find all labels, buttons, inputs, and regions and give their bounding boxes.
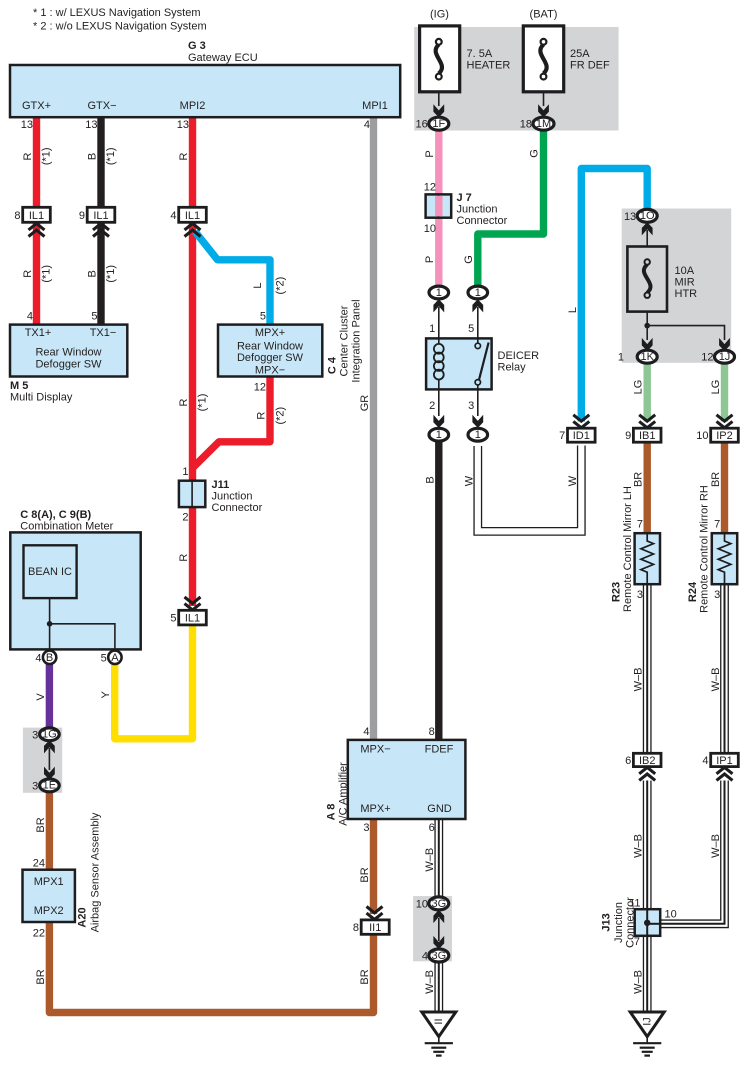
relay output oval 1 (right) xyxy=(468,428,488,441)
svg-text:1: 1 xyxy=(436,429,442,441)
label W-B J13 to ground xyxy=(633,970,645,994)
oval 1E xyxy=(32,779,59,792)
label W-B on GND wire xyxy=(424,848,436,872)
svg-text:1: 1 xyxy=(475,429,481,441)
svg-text:MPX2: MPX2 xyxy=(34,905,64,917)
svg-text:MIR: MIR xyxy=(675,277,695,289)
chevron up below IL1 pin9 xyxy=(93,224,109,237)
svg-text:Multi Display: Multi Display xyxy=(10,392,73,404)
svg-text:5: 5 xyxy=(101,652,107,664)
chevron up below IL1 pin4 xyxy=(185,224,201,237)
junction connector J7 xyxy=(426,194,452,217)
svg-text:2: 2 xyxy=(182,511,188,523)
svg-text:Airbag Sensor Assembly: Airbag Sensor Assembly xyxy=(90,812,102,932)
svg-text:IL1: IL1 xyxy=(185,210,200,222)
svg-text:W–B: W–B xyxy=(633,834,645,858)
label BR on A20 lower wire xyxy=(35,969,47,984)
svg-text:GTX+: GTX+ xyxy=(22,100,51,112)
svg-text:Defogger SW: Defogger SW xyxy=(35,359,102,371)
svg-text:12: 12 xyxy=(254,382,266,394)
label BR below II1 xyxy=(359,969,371,984)
label W-B IB2 to J13 xyxy=(633,834,645,858)
arrow and lead into relay pin5 xyxy=(472,299,483,338)
svg-text:B: B xyxy=(46,652,53,664)
svg-text:W–B: W–B xyxy=(633,668,645,692)
svg-text:12: 12 xyxy=(424,182,436,194)
wire W-B (IB2 to J13 pin11) xyxy=(643,781,652,910)
wire W-B (R24 pin3 to IP1) xyxy=(720,584,729,754)
svg-text:IJ: IJ xyxy=(641,1017,653,1026)
svg-text:MPX−: MPX− xyxy=(255,365,285,377)
M5 pin numbers 4/5 xyxy=(27,311,98,323)
svg-text:MPX−: MPX− xyxy=(360,744,390,756)
wire L branch (IL1 to C4 MPX+ pin5) xyxy=(195,232,270,326)
label W-B IP1 to J13 xyxy=(710,834,722,858)
multi display M5 label xyxy=(10,380,73,404)
label (BAT) xyxy=(530,9,558,21)
DEICER relay label xyxy=(498,350,540,374)
svg-text:(*2): (*2) xyxy=(275,277,287,295)
svg-text:IP1: IP1 xyxy=(716,755,733,767)
R24 pin numbers 7/3 xyxy=(714,519,720,602)
connector IB2 pin6 xyxy=(625,753,661,767)
svg-text:LG: LG xyxy=(710,380,722,395)
combination meter box xyxy=(10,532,140,649)
svg-text:V: V xyxy=(35,693,47,701)
svg-text:Integration Panel: Integration Panel xyxy=(351,299,363,382)
svg-text:J11: J11 xyxy=(212,479,230,491)
wire W-B (A8 GND pin6 to 3G) xyxy=(434,819,443,898)
lead and arrow from relay pin2 xyxy=(433,389,444,428)
connector IP1 pin4 xyxy=(702,753,738,767)
svg-text:3: 3 xyxy=(468,400,474,412)
wire B GTX- (G3 pin13 to M5 TX1-) xyxy=(97,116,104,325)
relay input oval 1 (left) xyxy=(429,286,449,299)
svg-text:IB2: IB2 xyxy=(639,755,656,767)
svg-text:B: B xyxy=(424,476,436,483)
wire W-B (IP1 to J13 pin10) xyxy=(660,781,725,924)
leads from fuse to 1K and 1J with junction node xyxy=(644,312,724,340)
wire LG (1K to IB1) xyxy=(644,362,651,422)
svg-text:LG: LG xyxy=(633,380,645,395)
fuse 7.5A HEATER xyxy=(420,26,460,92)
svg-text:* 2 : w/o LEXUS Navigation Sys: * 2 : w/o LEXUS Navigation System xyxy=(33,21,207,33)
A/C amplifier A8 label (rotated) xyxy=(326,762,350,826)
svg-text:Rear Window: Rear Window xyxy=(35,347,101,359)
label R (*1) on GTX+ wire lower xyxy=(22,265,53,283)
svg-text:(*1): (*1) xyxy=(41,265,53,283)
wire BR (A20 MPX2 pin22 to II1 junction, bottom run) xyxy=(49,922,373,1013)
svg-text:A/C Amplifier: A/C Amplifier xyxy=(338,762,350,826)
svg-text:1E: 1E xyxy=(43,780,56,792)
svg-text:Combination Meter: Combination Meter xyxy=(20,521,113,533)
svg-text:Y: Y xyxy=(100,690,112,698)
wire R MPI2 (G3 pin13 to J11 pin1) xyxy=(189,116,196,482)
gateway ECU G3 box xyxy=(10,65,400,117)
mirror R23 label (rotated) xyxy=(611,486,635,612)
label R (*1) on GTX+ wire upper xyxy=(22,147,53,165)
oval 1J pin12 xyxy=(701,350,734,364)
svg-text:MPX+: MPX+ xyxy=(255,327,285,339)
C4 pin numbers 5/12 xyxy=(254,311,266,394)
R23 pin numbers 7/3 xyxy=(637,519,643,602)
fuse value label 10A MIR HTR xyxy=(675,265,698,300)
svg-text:MPI1: MPI1 xyxy=(362,100,388,112)
arrow and lead from 1O into MIR HTR fuse xyxy=(642,222,653,246)
svg-text:A20: A20 xyxy=(77,907,89,927)
svg-text:* 1 : w/ LEXUS Navigation Syst: * 1 : w/ LEXUS Navigation System xyxy=(33,7,201,19)
wire R GTX+ (G3 pin13 to M5 TX1+) xyxy=(33,116,40,325)
oval 1K pin1 xyxy=(618,350,657,364)
label (IG) xyxy=(430,9,449,21)
svg-text:8: 8 xyxy=(14,210,20,222)
svg-text:25A: 25A xyxy=(570,48,590,60)
connector IB1 pin9 xyxy=(625,428,661,442)
svg-text:1M: 1M xyxy=(536,118,551,130)
svg-text:(*1): (*1) xyxy=(105,147,117,165)
A20 pin numbers 24/22 xyxy=(33,858,45,940)
wire V (combination meter pin4 B to 1G) xyxy=(46,663,53,729)
svg-text:8: 8 xyxy=(429,726,435,738)
svg-text:HTR: HTR xyxy=(675,288,698,300)
oval 3G pin4 xyxy=(422,949,449,963)
junction connector J13 xyxy=(635,909,661,936)
J11 label xyxy=(212,479,263,514)
svg-text:BR: BR xyxy=(35,969,47,984)
junction connector J11 xyxy=(179,481,205,507)
meter pin numbers 4/5 xyxy=(35,652,106,664)
fuse value label 7.5A HEATER xyxy=(467,48,511,72)
arrow into 1J xyxy=(719,338,730,351)
svg-text:Remote Control Mirror LH: Remote Control Mirror LH xyxy=(622,486,634,612)
svg-text:Junction: Junction xyxy=(212,491,253,503)
svg-text:BR: BR xyxy=(633,472,645,487)
oval 3G pin10 xyxy=(416,897,449,911)
svg-text:B: B xyxy=(87,153,99,160)
svg-text:(*1): (*1) xyxy=(41,147,53,165)
wire P (1F to J7 to relay pin1) xyxy=(435,130,442,288)
svg-text:1J: 1J xyxy=(719,351,731,363)
label BR on 1E-A20 wire xyxy=(35,817,47,832)
label R (*2) on MPX- branch xyxy=(256,407,287,425)
svg-text:HEATER: HEATER xyxy=(467,60,511,72)
pin B circle xyxy=(43,651,56,664)
connector IL1 pin5 xyxy=(170,610,206,625)
double arrow between 3G ovals xyxy=(433,910,444,949)
label L (*2) on blue branch xyxy=(252,277,287,295)
mirror R23 box with resistor xyxy=(635,533,660,584)
svg-text:4: 4 xyxy=(363,726,369,738)
svg-text:C 4: C 4 xyxy=(327,356,339,374)
label W-B to IP1 xyxy=(710,668,722,692)
svg-text:P: P xyxy=(424,256,436,263)
svg-text:R: R xyxy=(22,270,34,278)
svg-text:G: G xyxy=(529,149,541,158)
oval 1G xyxy=(32,728,59,741)
svg-text:4: 4 xyxy=(364,119,370,131)
chevron up below IP1 xyxy=(717,767,733,780)
svg-text:MPX1: MPX1 xyxy=(34,876,64,888)
svg-text:6: 6 xyxy=(429,822,435,834)
wire BR (1E to A20 MPX1 pin24) xyxy=(46,791,53,870)
svg-text:R: R xyxy=(178,152,190,160)
svg-text:R23: R23 xyxy=(611,582,623,602)
svg-text:B: B xyxy=(87,270,99,277)
svg-text:M 5: M 5 xyxy=(10,380,28,392)
svg-text:16: 16 xyxy=(416,119,428,131)
lead and arrow from relay pin3 xyxy=(472,389,483,428)
label W-B below 3G xyxy=(424,970,436,994)
svg-text:MPX+: MPX+ xyxy=(360,803,390,815)
svg-text:4: 4 xyxy=(422,951,428,963)
svg-text:Junction: Junction xyxy=(613,902,625,943)
label LG right xyxy=(710,380,722,395)
svg-text:5: 5 xyxy=(91,311,97,323)
svg-text:L: L xyxy=(567,307,579,313)
svg-text:G: G xyxy=(463,255,475,264)
label BR to R23 xyxy=(633,472,645,487)
svg-text:J 7: J 7 xyxy=(457,192,472,204)
gray background: 3G connector block xyxy=(413,896,452,961)
relay pin numbers 1/5 xyxy=(429,323,474,335)
connector IP2 pin10 xyxy=(696,428,738,442)
svg-text:7: 7 xyxy=(637,519,643,531)
arrow into 1K xyxy=(642,338,653,351)
svg-text:P: P xyxy=(424,150,436,157)
J7 pin numbers 12/10 xyxy=(424,182,436,235)
label B (*1) on GTX- wire lower xyxy=(87,265,118,283)
svg-text:(*1): (*1) xyxy=(105,265,117,283)
lead and arrow from HEATER fuse to 1F xyxy=(433,92,444,118)
svg-text:5: 5 xyxy=(170,613,176,625)
svg-text:R: R xyxy=(256,412,268,420)
label W-B to IB2 xyxy=(633,668,645,692)
svg-text:9: 9 xyxy=(79,210,85,222)
wire L (ID1 up and over to 1O) xyxy=(581,169,647,422)
svg-text:ID1: ID1 xyxy=(573,430,590,442)
label GR on MPI1 wire xyxy=(359,395,371,412)
center cluster C4 box xyxy=(218,325,322,377)
svg-text:3: 3 xyxy=(363,822,369,834)
ground II xyxy=(422,1012,456,1056)
label W right xyxy=(567,475,579,486)
svg-text:(*2): (*2) xyxy=(274,407,286,425)
svg-text:8: 8 xyxy=(353,922,359,934)
label V on violet wire xyxy=(35,693,47,701)
svg-text:II1: II1 xyxy=(369,922,381,934)
svg-text:FDEF: FDEF xyxy=(425,744,454,756)
relay output oval 1 (left) xyxy=(429,428,449,441)
svg-text:FR DEF: FR DEF xyxy=(570,60,610,72)
relay pin numbers 2/3 xyxy=(429,400,474,412)
wire Y (IL1 to combination meter pin5 A) xyxy=(115,623,193,739)
svg-text:4: 4 xyxy=(702,755,708,767)
label B (*1) on GTX- wire upper xyxy=(87,147,118,165)
svg-text:J13: J13 xyxy=(601,913,613,931)
svg-text:1G: 1G xyxy=(42,729,57,741)
label R on MPI2 wire xyxy=(178,152,190,160)
oval 1M pin18 xyxy=(520,117,554,131)
svg-text:BEAN IC: BEAN IC xyxy=(28,566,72,578)
mirror R24 label (rotated) xyxy=(687,485,711,613)
svg-text:R: R xyxy=(178,554,190,562)
gray background: 1G/1E connector block xyxy=(23,728,62,793)
svg-text:13: 13 xyxy=(177,119,189,131)
label P upper xyxy=(424,150,436,157)
wire R branch (C4 MPX- pin12 to J11 junction) xyxy=(193,376,270,468)
fuse value label 25A FR DEF xyxy=(570,48,610,72)
multi display M5 box xyxy=(10,325,127,377)
svg-text:Defogger SW: Defogger SW xyxy=(237,352,304,364)
svg-text:1: 1 xyxy=(475,287,481,299)
svg-text:18: 18 xyxy=(520,119,532,131)
label P lower xyxy=(424,256,436,263)
svg-text:Rear Window: Rear Window xyxy=(237,341,303,353)
wire W (relay pin3 to ID1, U-run) xyxy=(478,446,582,532)
gateway ECU G3 label xyxy=(188,40,258,64)
label BR to R24 xyxy=(710,472,722,487)
svg-text:Remote Control Mirror RH: Remote Control Mirror RH xyxy=(699,485,711,613)
label G lower xyxy=(463,255,475,264)
lead and arrow from FR DEF fuse to 1M xyxy=(538,92,549,118)
connector IL1 pin9 xyxy=(79,207,115,222)
svg-text:C 8(A), C 9(B): C 8(A), C 9(B) xyxy=(20,509,91,521)
svg-text:22: 22 xyxy=(33,927,45,939)
svg-text:IB1: IB1 xyxy=(639,430,656,442)
svg-text:(BAT): (BAT) xyxy=(530,9,558,21)
svg-text:BR: BR xyxy=(359,867,371,882)
svg-text:IL1: IL1 xyxy=(185,613,200,625)
pin A circle xyxy=(108,651,121,664)
label R (*1) on main red wire xyxy=(178,394,208,412)
label W left xyxy=(463,475,475,486)
combination meter label xyxy=(20,509,113,533)
gray background: mirror heater fuse block xyxy=(622,209,732,363)
svg-text:GR: GR xyxy=(359,395,371,412)
svg-text:IL1: IL1 xyxy=(93,210,108,222)
label G upper xyxy=(529,149,541,158)
wire R (J11 pin2 to IL1 pin5) xyxy=(189,507,196,607)
svg-text:24: 24 xyxy=(33,858,45,870)
svg-text:13: 13 xyxy=(624,211,636,223)
G3 pin numbers 13/13/13/4 xyxy=(21,119,370,131)
chevron down above IP2 xyxy=(717,415,733,428)
svg-text:W: W xyxy=(463,475,475,486)
J7 label xyxy=(457,192,508,227)
svg-text:TX1−: TX1− xyxy=(90,327,117,339)
arrow and lead into relay pin1 xyxy=(433,299,444,338)
svg-text:13: 13 xyxy=(85,119,97,131)
label Y on yellow wire xyxy=(100,690,112,698)
svg-text:5: 5 xyxy=(260,311,266,323)
svg-text:IP2: IP2 xyxy=(716,430,733,442)
svg-text:II: II xyxy=(433,1018,445,1024)
svg-text:4: 4 xyxy=(27,311,33,323)
svg-text:7. 5A: 7. 5A xyxy=(467,48,493,60)
wire W-B (R23 pin3 to IB2) xyxy=(643,584,652,754)
chevron down above IB1 xyxy=(639,415,655,428)
svg-text:12: 12 xyxy=(701,352,713,364)
svg-text:10: 10 xyxy=(424,223,436,235)
svg-text:BR: BR xyxy=(359,969,371,984)
svg-text:3: 3 xyxy=(637,589,643,601)
label B on relay-FDEF wire xyxy=(424,476,436,483)
fuse 10A MIR HTR xyxy=(627,247,667,312)
svg-text:BR: BR xyxy=(710,472,722,487)
chevron up below IB2 xyxy=(639,767,655,780)
svg-text:1: 1 xyxy=(618,352,624,364)
svg-text:(*1): (*1) xyxy=(196,394,208,412)
svg-text:Gateway ECU: Gateway ECU xyxy=(188,52,258,64)
svg-text:L: L xyxy=(252,283,264,289)
oval 1F pin16 xyxy=(416,117,449,131)
svg-text:BR: BR xyxy=(35,817,47,832)
wire BR (IP2 to R24 pin7) xyxy=(721,442,728,535)
label L on blue drop wire xyxy=(567,307,579,313)
svg-text:4: 4 xyxy=(170,210,176,222)
note *1 xyxy=(33,7,201,19)
svg-text:W–B: W–B xyxy=(424,848,436,872)
wire BR (A8 MPX+ pin3 to II1) xyxy=(370,819,377,915)
ground IJ xyxy=(630,1012,664,1056)
chevron up below IL1 pin8 xyxy=(29,224,45,237)
label LG left xyxy=(633,380,645,395)
J13 pin numbers 11/10/7 xyxy=(629,898,677,949)
svg-text:W–B: W–B xyxy=(710,834,722,858)
svg-text:W–B: W–B xyxy=(424,970,436,994)
svg-text:Center Cluster: Center Cluster xyxy=(339,305,351,376)
label BR on A8 MPX+ wire xyxy=(359,867,371,882)
chevron down above II1 xyxy=(367,907,383,920)
wire GR MPI1 (G3 pin4 to A8 MPX- pin4) xyxy=(370,116,377,741)
wire W-B (3G to ground II) xyxy=(434,962,443,1013)
svg-text:10: 10 xyxy=(416,898,428,910)
svg-text:Junction: Junction xyxy=(457,204,498,216)
note *2 xyxy=(33,21,207,33)
svg-text:GND: GND xyxy=(427,803,452,815)
svg-text:7: 7 xyxy=(559,430,565,442)
relay input oval 1 (right) xyxy=(468,286,488,299)
airbag sensor A20 box xyxy=(23,870,75,922)
svg-text:5: 5 xyxy=(468,323,474,335)
connector IL1 pin4 xyxy=(170,207,206,222)
svg-text:GTX−: GTX− xyxy=(87,100,116,112)
wire BR (IB1 to R23 pin7) xyxy=(644,442,651,535)
svg-text:7: 7 xyxy=(714,519,720,531)
svg-text:Relay: Relay xyxy=(498,362,527,374)
chevron down above ID1 xyxy=(573,415,589,428)
BEAN IC box xyxy=(24,545,77,598)
DEICER relay box xyxy=(426,338,492,389)
wire LG (1J to IP2) xyxy=(721,362,728,422)
svg-text:2: 2 xyxy=(429,400,435,412)
svg-text:R: R xyxy=(22,152,34,160)
wire G (1M to relay pin5) xyxy=(478,130,544,288)
svg-text:10: 10 xyxy=(665,909,677,921)
svg-text:6: 6 xyxy=(625,755,631,767)
connector II1 pin8 xyxy=(353,920,389,934)
svg-text:3: 3 xyxy=(714,589,720,601)
wire B (relay pin2 to A8 FDEF pin8) xyxy=(435,441,442,741)
A/C amplifier A8 box xyxy=(348,740,466,819)
svg-text:W: W xyxy=(567,475,579,486)
svg-text:Connector: Connector xyxy=(457,215,508,227)
wire W-B (J13 pin7 to ground IJ) xyxy=(643,936,652,1013)
svg-text:3: 3 xyxy=(32,729,38,741)
svg-text:1: 1 xyxy=(429,323,435,335)
svg-text:3G: 3G xyxy=(431,950,446,962)
svg-text:1K: 1K xyxy=(640,351,654,363)
